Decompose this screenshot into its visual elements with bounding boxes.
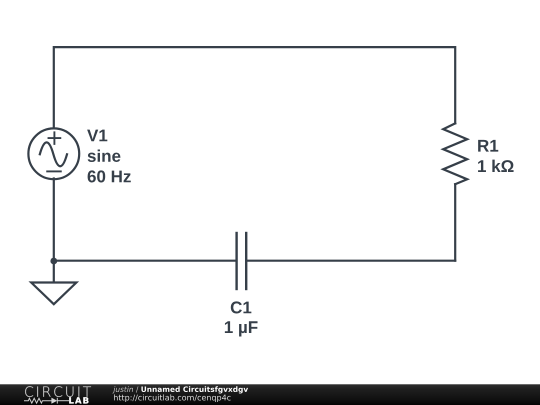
ground [31, 283, 76, 305]
node junction dot [50, 258, 57, 265]
label R1 name [478, 140, 498, 152]
footer title: Unnamed Circuitsfgvxdgv [141, 386, 248, 393]
label V1 value [88, 170, 131, 182]
logo text LAB [69, 397, 88, 403]
CircuitLab logo [0, 384, 540, 405]
label C1 value [225, 321, 258, 336]
logo wire to LAB [58, 400, 70, 402]
footer url text cenqp4c [114, 394, 231, 402]
footer bar [0, 384, 540, 405]
capacitor C1 [237, 233, 247, 289]
resistor R1 [443, 123, 467, 184]
label V1 type [88, 149, 121, 161]
logo squiggle wire + resistor [24, 398, 69, 404]
logo diode cathode bar [56, 398, 58, 404]
label V1 name [87, 130, 107, 142]
wire: right vertical below resistor [454, 184, 456, 261]
footer title: justin / [112, 386, 138, 393]
logo diode triangle [51, 398, 57, 404]
wire: bottom left horizontal to capacitor [54, 260, 236, 262]
wire: top horizontal + left and right verticals [54, 47, 455, 128]
wire: bottom right horizontal from capacitor [247, 260, 455, 262]
label R1 value [478, 160, 514, 172]
wire: left lower vertical from V1 to ground junction [53, 179, 55, 282]
logo text CIRCUIT [25, 386, 91, 397]
label C1 name [231, 301, 252, 313]
voltage source V1 [28, 128, 79, 179]
